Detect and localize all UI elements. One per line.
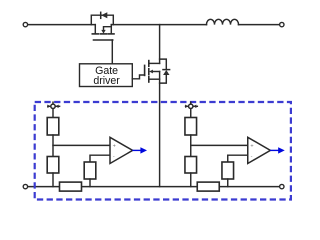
- wire U1 output to Q2 gate: [132, 75, 144, 79]
- wire probe to R1: [52, 109, 54, 118]
- transistor Q2 (low-side MOSFET, vertical): [145, 61, 160, 82]
- terminal bottom left (open circle): [23, 184, 27, 188]
- terminal output right (open circle): [280, 22, 284, 26]
- wire R5 to R6: [190, 135, 192, 157]
- wire R7 to op-amp - input: [228, 155, 248, 162]
- wire top left segment: [28, 24, 96, 26]
- wire divider tap to op-amp + input: [191, 144, 248, 146]
- resistor R7: [222, 162, 234, 179]
- resistor R4 (shunt): [60, 182, 82, 191]
- left sense circuit: [47, 102, 147, 191]
- svg-text:+: +: [250, 144, 253, 150]
- svg-text:-: -: [251, 154, 253, 160]
- wire top right segment: [239, 24, 280, 26]
- inductor L1: [207, 19, 239, 24]
- gate driver U1 box: [80, 64, 133, 87]
- wire R3 to op-amp - input: [90, 155, 110, 162]
- wire body-diode branch of Q1: [91, 15, 113, 24]
- wire probe to R5: [190, 109, 192, 118]
- wire U2 output (blue arrow): [133, 147, 147, 153]
- resistor R6: [185, 157, 197, 174]
- wire R7 to ground rail: [227, 179, 229, 187]
- wire divider tap to op-amp + input: [53, 144, 110, 146]
- transistor Q1 (high-side MOSFET, horizontal): [92, 25, 114, 40]
- wire Q1 gate lead to driver: [111, 40, 113, 64]
- op-amp U3: [248, 137, 271, 163]
- wire R3 to ground rail: [89, 179, 91, 187]
- svg-text:+: +: [113, 144, 116, 150]
- wire U3 output (blue arrow): [271, 147, 285, 153]
- probe node A (circle with arrows): [47, 102, 59, 108]
- right sense circuit: [185, 102, 285, 191]
- diode D2 (body diode of Q2): [163, 70, 170, 75]
- svg-text:-: -: [113, 154, 115, 160]
- wire R6 to ground rail: [190, 173, 192, 187]
- probe node B (circle with arrows): [185, 102, 197, 108]
- resistor R2: [47, 157, 59, 174]
- wire body-diode branch of Q2: [160, 59, 167, 69]
- op-amp U2: [110, 137, 133, 163]
- wire D2 bottom to source node: [160, 75, 167, 83]
- sense box (dashed): [35, 102, 291, 200]
- wire ground rail lower: [159, 72, 161, 187]
- wire R2 to ground rail: [52, 173, 54, 187]
- resistor R1: [47, 118, 59, 136]
- diode D1 (body diode of Q1): [101, 12, 108, 18]
- wire top middle segment: [111, 24, 206, 26]
- wire bottom rail: [28, 186, 280, 188]
- resistor R8 (shunt): [197, 182, 219, 191]
- terminal input left (open circle): [23, 22, 27, 26]
- resistor R5: [185, 118, 197, 136]
- resistor R3: [84, 162, 96, 179]
- svg-text:driver: driver: [93, 75, 120, 87]
- wire switch-node rail upper: [159, 25, 161, 64]
- wire R1 to R2: [52, 135, 54, 157]
- terminal bottom right (open circle): [280, 184, 284, 188]
